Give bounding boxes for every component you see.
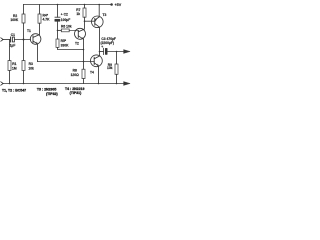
wire input to T1 base (3, 39, 11, 41)
wire R1 bottom to ground (9, 71, 11, 84)
svg-text:4.7K: 4.7K (43, 18, 51, 22)
resistor R7 (83, 8, 86, 17)
wire R9 top lead (116, 52, 118, 65)
wire R5 bottom to T2 emitter node (58, 47, 84, 49)
wire R1 drop (9, 40, 11, 61)
svg-text:R5*: R5* (61, 39, 67, 43)
wire R7 top lead (84, 5, 86, 9)
wire R3 bottom to ground (23, 71, 25, 84)
wire T3 collector down to output node (99, 27, 101, 51)
transistor T3 (92, 16, 104, 28)
svg-text:C1: C1 (11, 33, 15, 37)
svg-text:(TIP32): (TIP32) (46, 92, 58, 96)
wire C1 to T1 base (14, 39, 30, 41)
wire R2 bottom to base wire (23, 23, 25, 40)
svg-text:T2: T2 (75, 42, 79, 46)
wire R7 bottom to T3 base node (84, 17, 86, 21)
resistor R5 (56, 39, 59, 47)
wire C2 top lead (57, 5, 59, 18)
svg-text:T1, T2 : BC547: T1, T2 : BC547 (2, 89, 26, 93)
resistor R1 (8, 61, 11, 71)
wire C3 to output arrow (107, 51, 123, 53)
svg-text:T4: T4 (90, 71, 94, 75)
resistor R6 (61, 29, 69, 32)
svg-text:1µF: 1µF (10, 44, 16, 48)
input terminal top (1, 38, 3, 41)
wire ground rail (3, 83, 124, 85)
capacitor C3 (103, 48, 105, 54)
labels (10, 3, 122, 77)
svg-text:+5V: +5V (115, 3, 122, 7)
wire R9 bottom to ground (116, 74, 118, 83)
svg-text:1k: 1k (76, 12, 80, 16)
output arrow (124, 50, 130, 54)
wire T4 collector up to output node (99, 52, 101, 56)
wire T2 collector up to node (83, 21, 85, 29)
svg-text:+: + (101, 45, 103, 49)
svg-text:100µF: 100µF (61, 18, 70, 22)
capacitor C2 (55, 16, 60, 18)
svg-text:330K: 330K (61, 43, 70, 47)
svg-text:R6 10k: R6 10k (61, 24, 72, 28)
wire R8 top lead (83, 62, 85, 70)
svg-text:120Ω: 120Ω (71, 73, 80, 77)
wire C2 bottom to node (57, 21, 59, 30)
svg-text:T3 : 2N2905: T3 : 2N2905 (37, 88, 57, 92)
wire T3 emitter up to rail (98, 5, 100, 17)
wire R6 to T2 base (69, 29, 78, 31)
wire R5 top lead (57, 30, 59, 39)
wire node to T3 base (85, 20, 95, 22)
svg-text:T1: T1 (27, 29, 31, 33)
wire R4 top lead (39, 5, 41, 15)
resistor R4 (38, 14, 41, 23)
resistor R9 (115, 64, 118, 74)
transistor T4 (91, 55, 103, 67)
wire T2 emitter down (83, 39, 85, 61)
svg-text:10k: 10k (107, 66, 113, 70)
input terminal bottom (1, 82, 3, 85)
wire emitter rail to T4 base (38, 61, 95, 63)
wire T1 emitter down (37, 44, 39, 62)
svg-text:1M: 1M (12, 66, 17, 70)
wire top rail (24, 4, 111, 6)
resistor R3 (22, 61, 25, 71)
svg-text:T3: T3 (103, 13, 107, 17)
resistor R2 (22, 14, 25, 23)
ground arrow right (124, 82, 130, 86)
wire T1 collector to R4 (39, 23, 41, 34)
wire R3 top lead (23, 40, 25, 61)
svg-text:+ C2: + C2 (61, 13, 68, 17)
junction dots (9, 3, 118, 84)
wire output node to C3 (100, 51, 104, 53)
svg-text:(TIP31): (TIP31) (70, 91, 82, 95)
wire R2 top lead (23, 5, 25, 15)
transistor T1 (30, 34, 41, 45)
svg-text:10k: 10k (28, 66, 34, 70)
node +5V terminal (110, 3, 113, 6)
transistor T2 (75, 28, 86, 39)
svg-text:100K: 100K (10, 18, 19, 22)
wire node to R6 (58, 29, 62, 31)
wire T4 emitter down to ground (98, 66, 100, 84)
capacitor C1 (10, 37, 12, 42)
resistor R8 (82, 69, 85, 78)
wire R8 bottom to ground (83, 79, 85, 84)
